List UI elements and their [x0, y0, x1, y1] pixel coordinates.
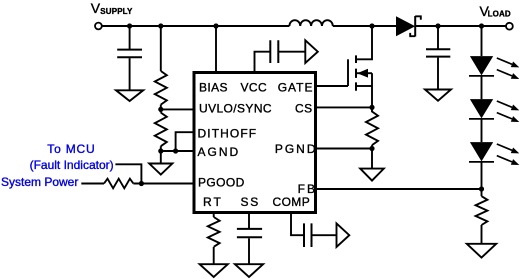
svg-text:COMP: COMP: [273, 195, 311, 209]
LED D3: [470, 99, 493, 118]
wire AGND net horizontal to IC: [161, 150, 193, 152]
wire UVLO/SYNC pin: [161, 108, 193, 110]
wire between divider resistors: [160, 105, 162, 113]
svg-text:LOAD: LOAD: [488, 9, 511, 18]
wire BIAS top pin: [215, 26, 217, 72]
node junction top rail at input cap: [127, 23, 132, 28]
wire VCC top pin: [255, 52, 270, 72]
wire divider bottom to AGND net: [160, 146, 162, 151]
wire SS cap to ground: [248, 238, 250, 264]
transistor Q1 body diode arrow: [356, 72, 372, 74]
LED D4: [470, 142, 493, 161]
wire AGND ground stub: [160, 151, 162, 163]
svg-text:AGND: AGND: [198, 145, 241, 159]
svg-text:PGOOD: PGOOD: [198, 175, 245, 189]
wire CS pin: [317, 106, 372, 108]
wire top rail from inductor to diode anode: [333, 25, 396, 27]
ground under output cap: [425, 90, 451, 101]
svg-text:SUPPLY: SUPPLY: [100, 7, 133, 16]
node junction top rail at switch node: [369, 23, 374, 28]
ground under AGND net: [149, 164, 172, 175]
svg-text:DITHOFF: DITHOFF: [198, 127, 258, 141]
svg-text:BIAS: BIAS: [199, 81, 228, 95]
svg-text:System Power: System Power: [1, 175, 78, 189]
node junction top rail at BIAS: [213, 23, 218, 28]
resistor LED current set: [476, 196, 488, 225]
wire source vertical to CS node: [371, 73, 373, 107]
capacitor output: [426, 49, 450, 56]
transistor Q1 channel segments: [355, 55, 357, 90]
IC U1 body: [194, 73, 316, 213]
resistor RT: [208, 217, 220, 247]
svg-text:UVLO/SYNC: UVLO/SYNC: [199, 101, 272, 115]
wire fault indicator to PGOOD node: [115, 164, 141, 183]
node junction top rail at output cap: [435, 23, 440, 28]
wire input cap branch upper: [129, 26, 131, 49]
node junction FB: [479, 186, 484, 191]
wire GATE pin to gate: [317, 85, 348, 87]
LED D3 light arrows: [497, 101, 512, 107]
terminal VSUPPLY: [95, 23, 102, 30]
wire UVLO divider upper: [160, 26, 162, 71]
wire COMP cap to arrow: [312, 234, 337, 236]
LED D4 light arrows: [497, 144, 512, 150]
node junction AGND net at divider: [158, 148, 163, 153]
wire LED2 to LED3: [481, 119, 483, 142]
net arrow VCC: [305, 40, 318, 63]
resistor PGOOD pullup: [104, 179, 133, 189]
capacitor VCC bypass: [270, 40, 278, 63]
wire MOSFET drain vertical: [356, 26, 372, 59]
wire SS pin: [248, 214, 250, 229]
LED D2 light arrows: [497, 58, 512, 64]
svg-text:FB: FB: [298, 182, 317, 196]
svg-text:To MCU: To MCU: [47, 142, 95, 156]
wire COMP pin: [291, 214, 303, 235]
resistor current sense: [366, 107, 378, 145]
wire PGND pin: [317, 148, 372, 150]
transistor Q1 source stub: [356, 85, 372, 87]
wire top rail from VSUPPLY terminal to inductor: [102, 25, 289, 27]
node junction top rail at UVLO divider: [158, 23, 163, 28]
wire top rail from diode cathode to VLOAD terminal: [415, 25, 506, 27]
ground under input cap: [116, 90, 143, 101]
wire pullup resistor to PGOOD pin: [133, 183, 193, 185]
svg-text:RT: RT: [203, 195, 223, 209]
svg-text:VCC: VCC: [241, 81, 268, 95]
resistor UVLO bottom R2: [155, 113, 167, 147]
svg-text:GATE: GATE: [278, 81, 314, 95]
wire DITHOFF tap: [176, 132, 193, 151]
node junction CS: [369, 105, 374, 110]
terminal VLOAD: [506, 23, 513, 30]
svg-text:SS: SS: [241, 195, 261, 209]
node junction PGOOD: [139, 181, 144, 186]
resistor UVLO top R1: [155, 71, 167, 105]
net arrow COMP: [337, 223, 350, 247]
inductor L1: [289, 20, 332, 26]
diode D1 schottky: [396, 16, 415, 36]
node junction top rail at LED string: [479, 23, 484, 28]
capacitor SS: [237, 229, 262, 237]
LED D2: [470, 56, 493, 75]
wire RT resistor to ground: [213, 247, 215, 264]
svg-text:PGND: PGND: [275, 142, 318, 156]
wire output cap branch lower: [437, 58, 439, 90]
wire LED resistor to ground: [481, 225, 483, 244]
node junction PGND net: [369, 146, 374, 151]
wire sense resistor to ground: [371, 145, 373, 168]
ground under RT resistor: [200, 264, 228, 277]
wire LED3 to FB node: [481, 162, 483, 196]
wire output cap branch upper: [437, 26, 439, 49]
node junction AGND net at DITHOFF tap: [173, 148, 178, 153]
svg-text:V: V: [91, 0, 101, 16]
ground under sense resistor: [360, 169, 384, 181]
wire VCC cap to arrow: [278, 51, 305, 53]
wire LED1 to LED2: [481, 76, 483, 99]
wire FB pin: [317, 188, 482, 190]
node junction UVLO tap: [158, 107, 163, 112]
capacitor COMP: [304, 223, 312, 247]
ground under SS cap: [235, 264, 263, 277]
wire LED branch top: [481, 26, 483, 56]
ground under LED resistor: [467, 244, 496, 258]
wire System Power to pullup resistor: [81, 183, 104, 185]
wire RT pin: [213, 214, 215, 217]
svg-text:(Fault Indicator): (Fault Indicator): [30, 158, 114, 172]
wire input cap branch lower: [129, 58, 131, 90]
capacitor input C1: [117, 50, 142, 58]
svg-text:CS: CS: [295, 101, 312, 115]
transistor Q1 NMOS gate bar: [347, 59, 349, 86]
